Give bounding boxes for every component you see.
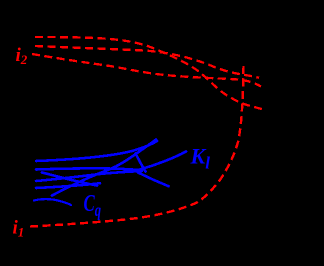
blue descender from junction xyxy=(138,173,169,187)
curve i2 middle: line 2 xyxy=(35,46,259,78)
blue small arc (left of Cq) xyxy=(34,199,71,205)
blue descending stroke xyxy=(42,173,97,186)
blue stroke B (second, swoops to K label) xyxy=(36,152,186,171)
curve i1: hockey-stick characteristic xyxy=(30,63,244,227)
curve i2 upper: line 1 (top, steepest fan) xyxy=(35,37,265,110)
blue stroke C (third) xyxy=(36,171,142,181)
curve i2 lower: line 3 (flattens) xyxy=(32,54,261,87)
blue short steep stroke into junction xyxy=(136,154,146,172)
blue stroke A (top long) xyxy=(36,141,157,161)
blue stroke D (bottom of bundle) xyxy=(36,183,100,188)
blue diagonal stroke xyxy=(52,140,156,196)
